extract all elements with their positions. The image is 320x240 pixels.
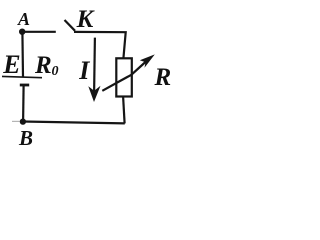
svg-text:I: I xyxy=(78,56,90,85)
svg-text:A: A xyxy=(17,9,30,29)
svg-text:R: R xyxy=(154,64,172,91)
svg-text:K: K xyxy=(76,6,96,33)
svg-text:R: R xyxy=(34,52,52,79)
svg-text:B: B xyxy=(18,126,33,150)
svg-text:E: E xyxy=(2,50,20,79)
svg-text:0: 0 xyxy=(52,64,59,79)
